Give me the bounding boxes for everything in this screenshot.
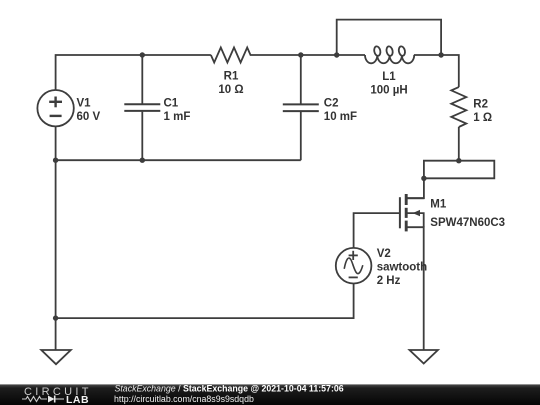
svg-text:L1: L1 <box>382 71 396 83</box>
svg-text:10 Ω: 10 Ω <box>218 84 243 96</box>
resistor R2 <box>451 87 466 127</box>
transistor M1 drain connection <box>407 197 424 199</box>
svg-text:SPW47N60C3: SPW47N60C3 <box>430 217 505 229</box>
svg-text:1 Ω: 1 Ω <box>473 112 492 124</box>
wire top rail left <box>56 55 211 90</box>
junction node C1 bottom <box>140 158 145 163</box>
junction node C2 top <box>298 52 303 57</box>
junction node C1 top <box>140 52 145 57</box>
resistor R1 <box>211 48 251 63</box>
wire V2 bottom lead <box>56 283 354 318</box>
wire gate lead <box>354 213 400 248</box>
wire left vertical <box>55 126 57 318</box>
svg-text:R1: R1 <box>224 71 239 83</box>
wire C2 top lead <box>300 55 302 104</box>
wire R2 bottom lead <box>458 127 460 161</box>
svg-text:http://circuitlab.com/cna8s9s9: http://circuitlab.com/cna8s9s9sdqdb <box>114 394 254 404</box>
wire middle rail <box>56 159 301 161</box>
wire C2 bottom lead <box>300 111 302 160</box>
footer bar <box>0 384 540 405</box>
V2 plus sign <box>349 251 358 278</box>
svg-text:R2: R2 <box>473 99 488 111</box>
svg-text:StackExchange / StackExchange: StackExchange / StackExchange @ 2021-10-… <box>115 384 344 394</box>
ground GND right <box>410 350 438 364</box>
svg-text:V1: V1 <box>77 97 92 109</box>
transistor M1 body line <box>407 213 424 227</box>
transistor M1 gate line <box>399 197 401 228</box>
svg-text:C2: C2 <box>324 97 339 109</box>
transistor M1 body arrow <box>413 210 420 216</box>
svg-text:LAB: LAB <box>66 394 89 405</box>
V1 plus sign <box>49 97 62 116</box>
CircuitLab logo diode <box>48 396 55 403</box>
inductor L1 <box>365 55 377 63</box>
junction node bottom left <box>53 315 58 320</box>
wire source lead <box>407 227 424 350</box>
svg-text:100 µH: 100 µH <box>370 85 407 97</box>
voltage source V1 <box>37 90 73 126</box>
junction node R2 bottom <box>456 158 461 163</box>
V2 minus sign <box>349 276 358 278</box>
wire L1 bypass loop <box>337 20 441 55</box>
V1 minus sign <box>50 115 62 117</box>
wire C1 top lead <box>141 55 143 104</box>
transistor M1 channel bars <box>405 194 408 231</box>
wire left ground lead <box>55 318 57 350</box>
svg-text:C1: C1 <box>164 97 179 109</box>
svg-text:1 mF: 1 mF <box>164 111 191 123</box>
wire to R2 top <box>441 55 459 87</box>
junction node L1 left <box>334 52 339 57</box>
junction node L1 right <box>438 52 443 57</box>
CircuitLab logo resistor squiggle <box>22 397 47 402</box>
svg-text:2 Hz: 2 Hz <box>377 275 401 287</box>
svg-text:V2: V2 <box>377 248 391 260</box>
wire rectangle loop at drain <box>424 161 494 179</box>
wire drain lead <box>407 178 424 198</box>
V2 sine waveform <box>344 258 363 274</box>
junction node V1 bottom <box>53 158 58 163</box>
capacitor C2 <box>283 104 319 111</box>
svg-text:M1: M1 <box>430 198 447 210</box>
wire top rail middle <box>251 54 337 56</box>
svg-text:10 mF: 10 mF <box>324 111 357 123</box>
svg-text:60 V: 60 V <box>77 111 101 123</box>
junction node drain rect <box>421 176 426 181</box>
wire L1 left lead <box>337 54 365 56</box>
wire C1 bottom lead <box>141 112 143 161</box>
svg-text:sawtooth: sawtooth <box>377 261 427 273</box>
ground GND left <box>41 350 71 364</box>
capacitor C1 <box>124 104 160 111</box>
voltage source V2 <box>336 248 372 284</box>
wire L1 right lead <box>414 54 441 56</box>
